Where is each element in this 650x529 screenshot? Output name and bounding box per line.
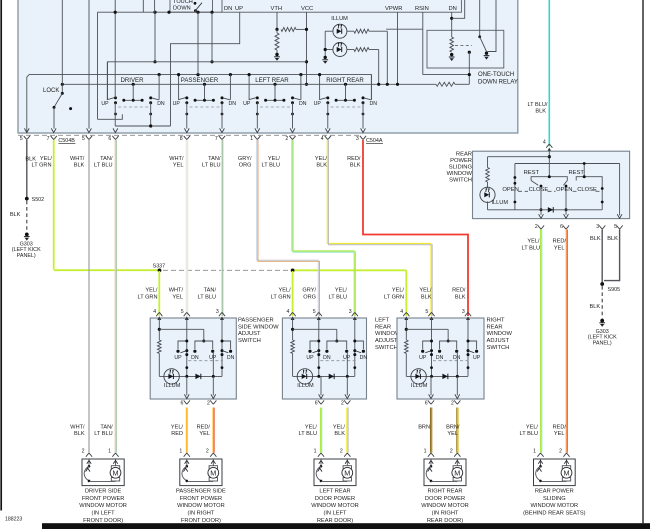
wire lock output arrow: [51, 128, 56, 132]
svg-text:3: 3: [596, 224, 599, 230]
wire WHT/BLK from pin 5 to driver motor: [88, 140, 90, 453]
LED left connections and ground: [325, 30, 333, 32]
left rear switch pivot post p3: [354, 318, 356, 376]
svg-text:YEL/: YEL/: [268, 156, 281, 162]
svg-text:LT BLU: LT BLU: [299, 431, 317, 437]
svg-text:DOWN: DOWN: [173, 6, 191, 12]
right rear switch illumination LED: [411, 369, 426, 384]
svg-text:BLK: BLK: [10, 212, 21, 218]
svg-text:UP: UP: [306, 355, 314, 361]
svg-text:(IN LEFT: (IN LEFT: [323, 511, 347, 517]
svg-text:LT BLU: LT BLU: [94, 431, 112, 437]
rear power sliding window motor box: [534, 459, 576, 486]
svg-text:2: 2: [285, 136, 288, 142]
svg-text:YEL/: YEL/: [145, 288, 158, 294]
left rear switch goalpost C: [355, 341, 364, 349]
rear switch REST bracket 1: [531, 177, 567, 181]
svg-text:DN: DN: [436, 355, 444, 361]
svg-text:BLK: BLK: [350, 162, 361, 168]
svg-text:WINDOW: WINDOW: [447, 171, 473, 177]
right rear door power window motor M symbol: [456, 459, 458, 466]
svg-text:5: 5: [20, 136, 23, 142]
svg-text:RIGHT: RIGHT: [487, 317, 505, 323]
svg-text:SWITCH: SWITCH: [487, 345, 510, 351]
connector pin 7 at x 222: [219, 136, 225, 140]
svg-text:LT BLU: LT BLU: [329, 294, 347, 300]
svg-text:ADJUST: ADJUST: [375, 338, 398, 344]
RSIN branch wire: [422, 12, 424, 74]
svg-text:YEL/: YEL/: [315, 156, 328, 162]
driver pin5 long wire: [88, 0, 90, 129]
left rear switch diode: [329, 374, 334, 379]
svg-text:YEL: YEL: [554, 431, 565, 437]
wire LT BLU/BLK from top to rear sliding switch: [548, 0, 550, 146]
left rear switch bottom bus: [293, 375, 355, 377]
svg-text:WINDOW MOTOR: WINDOW MOTOR: [79, 503, 127, 509]
ground G303 left kick panel: [25, 233, 29, 237]
left rear switch pin4 branch and feed line: [292, 318, 294, 340]
svg-text:OPEN: OPEN: [502, 187, 518, 193]
svg-text:LEFT REAR: LEFT REAR: [255, 77, 289, 84]
svg-text:DOOR POWER: DOOR POWER: [425, 496, 465, 502]
illumination LED 1: [333, 24, 347, 38]
left rear switch outputs: [320, 376, 322, 395]
rear switch contact columns: [514, 164, 516, 210]
svg-text:7: 7: [47, 136, 50, 142]
rear switch output arrows: [539, 214, 544, 218]
svg-text:TAN/: TAN/: [208, 156, 221, 162]
svg-text:YEL: YEL: [554, 245, 565, 251]
svg-text:ILLUM: ILLUM: [492, 200, 509, 206]
connector pin 3 at x 363: [360, 136, 366, 140]
passenger side window adjust switch box: [150, 318, 236, 399]
right rear switch bottom bus: [406, 375, 468, 377]
left rear door power window motor internals: [320, 459, 322, 465]
svg-text:SLIDING: SLIDING: [449, 165, 473, 171]
svg-text:FRONT DOOR): FRONT DOOR): [83, 518, 123, 524]
wire YEL/LT GRN down to left rear switch: [292, 271, 294, 316]
svg-text:6: 6: [108, 136, 111, 142]
rear power sliding window motor M symbol: [566, 459, 568, 466]
driver side front power window motor internals: [88, 459, 90, 465]
svg-text:(BEHIND REAR SEATS): (BEHIND REAR SEATS): [523, 511, 586, 517]
svg-text:UP: UP: [473, 355, 481, 361]
svg-text:LT BLU/: LT BLU/: [527, 102, 547, 108]
passenger side front power window motor box: [180, 459, 222, 486]
left rear door power window motor M symbol: [346, 459, 348, 466]
touch down switch box: [170, 0, 213, 12]
svg-text:3: 3: [216, 309, 219, 315]
wire verticals from top edge: [142, 0, 144, 12]
svg-text:YEL/: YEL/: [279, 288, 292, 294]
ground under relay switch: [484, 55, 490, 57]
rear switch link dashed: [518, 190, 528, 192]
wire right edge BLK vertical: [642, 0, 644, 523]
svg-text:LT GRN: LT GRN: [32, 162, 52, 168]
rear switch input wiring: [548, 151, 550, 177]
svg-text:GRY/: GRY/: [238, 156, 252, 162]
svg-text:5: 5: [313, 309, 316, 315]
svg-text:UP: UP: [173, 101, 181, 107]
svg-text:5: 5: [425, 309, 428, 315]
svg-text:ILLUM: ILLUM: [297, 383, 314, 389]
svg-text:BLK: BLK: [74, 162, 85, 168]
pin 5 BLK wire arrow: [24, 128, 29, 132]
LEFT REAR switch link dashed: [260, 106, 290, 108]
svg-text:DN: DN: [360, 355, 368, 361]
wire RED/BLK from pin 3 to right rear switch: [363, 140, 468, 316]
svg-text:2: 2: [82, 449, 85, 455]
svg-text:RSIN: RSIN: [415, 6, 429, 12]
wire RED/YEL passenger switch to motor: [212, 408, 214, 453]
svg-text:TOUCH: TOUCH: [173, 0, 193, 5]
wire YEL/LT BLU left rear switch to motor: [319, 408, 321, 453]
svg-text:7: 7: [215, 136, 218, 142]
passenger side switch diode: [195, 374, 200, 379]
right rear window adjust switch box: [397, 318, 484, 399]
left rear switch goalpost B: [327, 341, 347, 349]
svg-text:ONE-TOUCH: ONE-TOUCH: [478, 72, 514, 78]
svg-text:188223: 188223: [5, 517, 22, 523]
svg-text:YEL/: YEL/: [392, 288, 405, 294]
svg-text:SLIDING: SLIDING: [543, 496, 566, 502]
svg-text:6: 6: [315, 400, 318, 406]
svg-text:2: 2: [341, 400, 344, 406]
passenger side switch pivot post p3: [221, 318, 223, 376]
svg-text:TAN/: TAN/: [100, 156, 113, 162]
svg-text:DN: DN: [157, 101, 165, 107]
svg-text:WHT/: WHT/: [70, 156, 85, 162]
svg-text:BRN/: BRN/: [446, 425, 460, 431]
bus B horizontal with relay resistor: [62, 83, 436, 85]
svg-text:5: 5: [181, 309, 184, 315]
svg-text:YEL/: YEL/: [171, 425, 184, 431]
svg-text:3: 3: [349, 309, 352, 315]
svg-text:RIGHT REAR: RIGHT REAR: [428, 488, 463, 494]
svg-text:6: 6: [425, 400, 428, 406]
relay output junction: [468, 51, 471, 54]
svg-text:ILLUM: ILLUM: [331, 16, 348, 22]
svg-text:REST: REST: [569, 170, 585, 176]
wire WHT/YEL from pin 8 to passenger switch: [185, 140, 187, 316]
right rear switch pin4 branch and feed line: [405, 318, 407, 340]
connector pin 4 at x 327.8: [325, 136, 331, 140]
svg-text:LT GRN: LT GRN: [138, 294, 158, 300]
LED 1 series resistor: [347, 30, 354, 32]
right rear switch link dashed: [433, 360, 469, 362]
wire top line C inside master box: [98, 11, 223, 13]
svg-text:PANEL): PANEL): [17, 253, 36, 259]
svg-text:RED/: RED/: [197, 425, 211, 431]
svg-text:M: M: [210, 469, 216, 478]
wire BLK rear switch pin5: [604, 230, 620, 281]
svg-text:YEL/: YEL/: [333, 425, 346, 431]
right rear switch output column: [456, 351, 458, 376]
svg-text:2: 2: [559, 449, 562, 455]
wire BLK dashed to ground: [26, 201, 28, 233]
svg-text:1: 1: [250, 136, 253, 142]
svg-text:UP: UP: [419, 355, 427, 361]
svg-text:YEL/: YEL/: [527, 239, 540, 245]
svg-text:ILLUM: ILLUM: [164, 383, 181, 389]
svg-text:1: 1: [108, 449, 111, 455]
svg-text:REAR POWER: REAR POWER: [535, 488, 574, 494]
wire RED/YEL rear switch pin6 to motor: [565, 230, 567, 453]
svg-text:CLOSE: CLOSE: [577, 187, 597, 193]
right rear switch resistor: [405, 340, 409, 354]
svg-text:UP: UP: [243, 101, 251, 107]
svg-text:3: 3: [462, 309, 465, 315]
svg-text:S502: S502: [32, 197, 45, 203]
svg-text:BLK: BLK: [316, 162, 327, 168]
passenger side switch goalpost B: [195, 341, 213, 349]
svg-text:DN: DN: [323, 355, 331, 361]
passenger side switch outputs: [186, 376, 188, 395]
svg-text:BLK: BLK: [590, 236, 601, 242]
wire GRY/ORG from pin 1 to left rear switch: [257, 140, 319, 316]
UP feed bus at y 61.8: [108, 62, 307, 100]
connector pin 2 at x 292.5: [289, 136, 295, 140]
left rear switch link dashed: [320, 360, 356, 362]
svg-text:LOCK: LOCK: [43, 88, 59, 94]
svg-text:LEFT: LEFT: [375, 317, 390, 323]
connector pin 5 at x 89: [86, 136, 92, 140]
connector pin 5 at x 26.8: [24, 136, 30, 140]
wire YEL/LT GRN S337 to right rear switch: [295, 269, 407, 271]
svg-text:5: 5: [614, 224, 617, 230]
right rear switch goalpost B: [440, 341, 457, 349]
svg-text:UP: UP: [235, 6, 243, 12]
passenger side switch resistor: [158, 340, 162, 354]
relay feed elbow from top: [452, 0, 465, 18]
passenger side front power window motor M symbol: [212, 459, 214, 466]
svg-text:(IN RIGHT: (IN RIGHT: [432, 511, 459, 517]
wire YEL/BLK left rear switch to motor: [346, 408, 348, 453]
ground under relay coil: [449, 56, 455, 58]
svg-text:FRONT DOOR): FRONT DOOR): [181, 518, 221, 524]
svg-text:DRIVER SIDE: DRIVER SIDE: [85, 488, 122, 494]
left rear switch illumination LED: [297, 369, 312, 384]
svg-text:YEL/: YEL/: [335, 288, 348, 294]
RIGHT REAR switch link dashed: [331, 106, 361, 108]
switch sub-box left edge and bottom: [97, 12, 99, 119]
right rear group outputs: [327, 103, 329, 129]
ground under VTH resistor: [274, 56, 280, 58]
relay coil: [451, 12, 453, 37]
svg-text:SWITCH: SWITCH: [449, 178, 472, 184]
svg-text:WINDOW MOTOR: WINDOW MOTOR: [421, 503, 469, 509]
svg-text:LT BLU: LT BLU: [520, 431, 538, 437]
relay switch: [479, 0, 481, 36]
right rear switch outputs: [430, 376, 432, 395]
VTH pull-down resistor: [275, 33, 279, 50]
svg-text:WHT/: WHT/: [169, 156, 184, 162]
svg-text:RED/: RED/: [347, 156, 361, 162]
svg-text:1: 1: [179, 449, 182, 455]
svg-text:8: 8: [180, 136, 183, 142]
right rear switch goalpost C: [468, 341, 477, 349]
passenger side switch link dashed: [188, 360, 223, 362]
svg-text:ADJUST: ADJUST: [487, 338, 510, 344]
svg-text:2: 2: [450, 449, 453, 455]
relay dashed link: [455, 45, 472, 47]
wire BRN/YEL right rear switch to motor: [456, 408, 458, 453]
rear switch illumination branch: [487, 157, 489, 168]
passenger side front power window motor internals: [186, 459, 188, 465]
svg-text:BLK: BLK: [607, 236, 618, 242]
svg-text:RED: RED: [171, 431, 183, 437]
svg-text:YEL: YEL: [199, 431, 210, 437]
svg-text:LEFT REAR: LEFT REAR: [319, 488, 350, 494]
passenger side switch goalpost A: [178, 341, 187, 349]
splice S502: [25, 197, 29, 201]
wire TAN/LT BLU from pin 7 to passenger switch: [220, 140, 222, 316]
svg-text:RED/: RED/: [553, 239, 567, 245]
passenger side switch pivot post p5: [186, 318, 188, 376]
svg-text:RED/: RED/: [452, 288, 466, 294]
rear switch bottom bus with diode: [488, 209, 603, 211]
svg-text:M: M: [113, 469, 119, 478]
svg-text:GRY/: GRY/: [302, 288, 316, 294]
svg-text:1: 1: [314, 449, 317, 455]
svg-text:4: 4: [543, 139, 546, 145]
passenger side switch pin4 branch and feed line: [158, 318, 160, 340]
svg-text:DN: DN: [224, 6, 232, 12]
svg-text:BLK: BLK: [334, 431, 345, 437]
svg-text:POWER: POWER: [450, 158, 472, 164]
svg-text:DN: DN: [449, 6, 457, 12]
svg-text:LT GRN: LT GRN: [271, 294, 291, 300]
right rear door power window motor box: [424, 459, 466, 486]
svg-text:(IN LEFT: (IN LEFT: [92, 511, 116, 517]
passenger side switch goalpost C: [222, 341, 231, 349]
svg-text:M: M: [564, 469, 570, 478]
svg-text:VCC: VCC: [301, 6, 313, 12]
wire TAN/LT BLU from pin 6 to driver motor: [114, 140, 116, 453]
svg-text:M: M: [454, 469, 460, 478]
svg-text:WHT/: WHT/: [70, 425, 85, 431]
right rear switch pivot post p3: [467, 318, 469, 376]
svg-text:LT BLU: LT BLU: [262, 162, 280, 168]
svg-text:4: 4: [400, 309, 403, 315]
svg-text:BRN: BRN: [418, 425, 430, 431]
svg-text:FRONT POWER: FRONT POWER: [82, 496, 125, 502]
svg-text:OPEN: OPEN: [556, 187, 572, 193]
svg-text:BLK: BLK: [590, 304, 601, 310]
right rear switch pivot post p5: [431, 318, 433, 376]
svg-text:DN: DN: [370, 101, 378, 107]
ground under LEDs: [322, 59, 328, 61]
svg-text:4: 4: [153, 309, 156, 315]
wire BRN right rear switch to motor: [429, 408, 431, 453]
wire YEL/LT BLU from pin 2 to left rear switch: [292, 140, 354, 316]
svg-text:BLK: BLK: [455, 294, 466, 300]
bus A upper horizontal: [27, 75, 372, 133]
svg-text:YEL/: YEL/: [305, 425, 318, 431]
VCC vertical wire: [306, 12, 308, 84]
rear switch illumination LED: [480, 187, 495, 202]
left rear group outputs: [256, 103, 258, 129]
svg-text:TAN/: TAN/: [100, 425, 113, 431]
svg-text:VPWR: VPWR: [385, 6, 402, 12]
wire BLK from pin 5: [26, 140, 28, 197]
PASSENGER switch link dashed: [190, 106, 220, 108]
wire YEL/LT GRN down to passenger switch: [158, 271, 160, 316]
master switch header box DN UP VTH VCC VPWR RSIN DN: [222, 0, 461, 12]
svg-text:CLOSE: CLOSE: [529, 187, 549, 193]
svg-text:YEL: YEL: [447, 431, 458, 437]
svg-text:2: 2: [451, 400, 454, 406]
svg-text:DOOR POWER: DOOR POWER: [315, 496, 355, 502]
svg-text:REAR: REAR: [487, 324, 503, 330]
svg-text:PASSENGER: PASSENGER: [181, 77, 219, 84]
svg-text:PASSENGER SIDE: PASSENGER SIDE: [176, 488, 226, 494]
svg-text:ADJUST: ADJUST: [238, 331, 261, 337]
wire YEL/LT BLU rear switch pin2 to motor: [539, 230, 541, 453]
svg-text:LT BLU: LT BLU: [94, 162, 112, 168]
svg-text:VTH: VTH: [271, 6, 283, 12]
svg-text:6: 6: [181, 400, 184, 406]
wire YEL/BLK from pin 4 to right rear switch: [327, 140, 431, 316]
svg-text:BLK: BLK: [535, 109, 546, 115]
svg-text:YEL/: YEL/: [419, 288, 432, 294]
svg-text:DN: DN: [453, 355, 461, 361]
connector pin 8 at x 186.8: [184, 136, 190, 140]
splice S905: [600, 282, 604, 286]
svg-text:2: 2: [207, 400, 210, 406]
svg-text:2: 2: [206, 449, 209, 455]
wire YEL/LT GRN from pin 7 to splice S337: [53, 140, 55, 269]
page left border line: [0, 0, 2, 511]
svg-text:SWITCH: SWITCH: [375, 345, 398, 351]
svg-text:ORG: ORG: [239, 162, 252, 168]
right rear switch goalpost A: [423, 341, 432, 349]
svg-text:2: 2: [340, 449, 343, 455]
connector pin 6 at x 115.5: [112, 136, 118, 140]
svg-text:WINDOW MOTOR: WINDOW MOTOR: [311, 503, 359, 509]
svg-text:FRONT POWER: FRONT POWER: [180, 496, 223, 502]
driver group output routing: [114, 103, 116, 126]
left rear switch resistor: [291, 340, 295, 354]
svg-text:WINDOW MOTOR: WINDOW MOTOR: [177, 503, 225, 509]
svg-text:LT BLU: LT BLU: [522, 245, 540, 251]
rear switch REST bracket 2: [576, 177, 602, 181]
DRIVER switch link dashed: [118, 106, 148, 108]
svg-text:4: 4: [287, 309, 290, 315]
illumination LED 2: [333, 43, 347, 57]
svg-text:REAR: REAR: [456, 152, 472, 158]
connector dashed line: [18, 134, 362, 136]
svg-text:1: 1: [424, 449, 427, 455]
passenger side switch bottom bus: [159, 375, 222, 377]
svg-text:UP: UP: [314, 101, 322, 107]
svg-text:YEL/: YEL/: [526, 425, 539, 431]
svg-text:ORG: ORG: [303, 294, 316, 300]
svg-text:UP: UP: [101, 101, 109, 107]
svg-text:WHT/: WHT/: [169, 288, 184, 294]
svg-text:ILLUM: ILLUM: [411, 383, 428, 389]
svg-text:TAN/: TAN/: [204, 288, 217, 294]
left rear switch output column: [346, 351, 348, 376]
svg-text:DOWN RELAY: DOWN RELAY: [478, 80, 518, 86]
bottom black bar: [42, 523, 650, 529]
svg-text:BLK: BLK: [25, 156, 36, 162]
svg-text:2: 2: [535, 224, 538, 230]
VTH resistor branch: [276, 12, 278, 29]
svg-text:S905: S905: [608, 287, 621, 293]
svg-text:6: 6: [560, 224, 563, 230]
S337 dashed bus: [163, 269, 289, 271]
